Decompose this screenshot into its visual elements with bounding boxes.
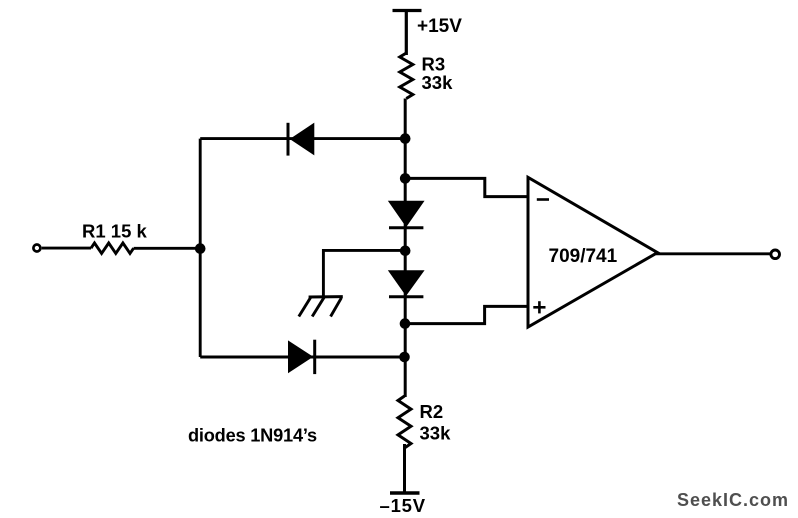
op-amp U1 xyxy=(528,177,658,327)
node: input junction dot xyxy=(195,243,206,254)
wire: op-amp output xyxy=(656,252,770,255)
node: plus branch dot xyxy=(400,318,411,329)
wire: left vertical line xyxy=(199,139,202,357)
svg-text:–15V: –15V xyxy=(380,495,426,516)
diode D4 (bottom horizontal 1N914, pointing right) xyxy=(289,340,315,374)
wire: ground branch xyxy=(323,250,405,297)
diode D1 (upper vertical 1N914, pointing down) xyxy=(389,201,424,228)
ground xyxy=(299,297,343,317)
label R3 33k xyxy=(422,53,454,93)
wire: R1 to junction xyxy=(134,247,201,250)
wire: bottom diode branch xyxy=(200,356,405,359)
label R2 33k xyxy=(420,401,452,444)
svg-text:33k: 33k xyxy=(420,423,452,444)
wire: top diode branch xyxy=(200,137,405,140)
wire: R2 to -15V xyxy=(403,444,406,492)
svg-text:R1 15 k: R1 15 k xyxy=(82,221,148,242)
wire: main vertical line (R3 bottom to R2 top) xyxy=(404,99,407,398)
resistor R2 xyxy=(398,396,411,448)
-15V terminal xyxy=(390,491,420,494)
wire: to op-amp inverting input xyxy=(405,178,528,196)
op-amp minus input marking xyxy=(537,198,549,201)
diode D2 (lower vertical 1N914, pointing down) xyxy=(389,271,424,297)
svg-text:SeekIC.com: SeekIC.com xyxy=(677,490,789,510)
node: minus branch dot xyxy=(400,173,411,184)
input terminal xyxy=(33,245,40,252)
node: bottom junction dot xyxy=(399,352,410,363)
svg-text:+15V: +15V xyxy=(417,16,462,37)
node: top junction dot xyxy=(400,133,411,144)
+15V terminal xyxy=(393,9,422,12)
svg-text:709/741: 709/741 xyxy=(549,246,618,267)
wire: to op-amp non-inverting input xyxy=(405,306,528,323)
op-amp plus input marking xyxy=(533,301,545,313)
resistor R3 xyxy=(400,53,413,99)
resistor R1 xyxy=(91,243,134,253)
svg-text:R2: R2 xyxy=(420,401,444,422)
diode D3 (top horizontal 1N914, pointing left) xyxy=(288,123,314,156)
wire: input to R1 xyxy=(42,247,91,250)
output terminal xyxy=(771,250,780,259)
wire: +15V to R3 xyxy=(405,11,408,56)
svg-text:33k: 33k xyxy=(422,72,454,93)
node: ground junction dot xyxy=(400,246,411,257)
svg-text:diodes 1N914’s: diodes 1N914’s xyxy=(188,425,317,445)
